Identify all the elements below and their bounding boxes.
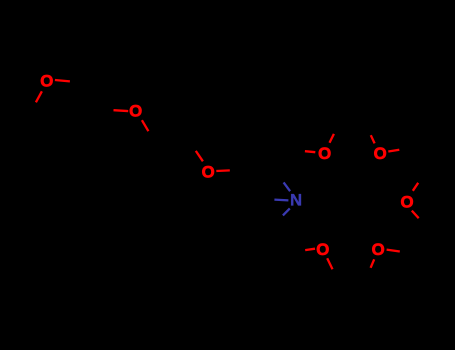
- bond stub O8-C (down-left half bond): [371, 259, 375, 268]
- svg-text:O: O: [374, 144, 387, 163]
- bond stub O1-C (right half bond): [55, 80, 70, 81]
- svg-text:O: O: [318, 144, 331, 163]
- svg-text:O: O: [40, 71, 53, 90]
- bond stub O3-C (right half bond): [216, 169, 230, 172]
- bond stub O7-C (left half bond): [305, 249, 315, 250]
- bond stub O3-C (up-left half bond): [196, 151, 203, 161]
- bond stub O6-C (up-right half bond): [413, 183, 418, 191]
- svg-text:O: O: [129, 102, 142, 121]
- svg-text:O: O: [400, 192, 413, 211]
- bond stub O4-C (up-right half bond): [330, 134, 334, 143]
- svg-text:O: O: [372, 240, 385, 259]
- bond stub O1-CH3 (down-left half bond): [36, 91, 42, 102]
- bond stub N1-C (left half bond): [274, 198, 288, 201]
- bond stub O4-C (left half bond): [305, 151, 315, 152]
- bond stub O2-C (left half bond): [114, 109, 129, 112]
- svg-text:O: O: [202, 163, 215, 182]
- bond stub O5-C (up-left half bond): [371, 135, 375, 143]
- bond stub O7-C (down-right half bond): [327, 258, 332, 269]
- bond stub O6-C (down-right half bond): [412, 211, 419, 219]
- bond stub O5-C (right half bond): [388, 150, 399, 152]
- svg-text:N: N: [290, 191, 302, 210]
- svg-text:O: O: [316, 240, 329, 259]
- bond stub N1-C (down-left half bond): [283, 208, 290, 215]
- bond stub N1-C (up-left half bond): [284, 182, 291, 191]
- bond stub O8-C (right half bond): [387, 250, 400, 252]
- bond stub O2-C (down-right half bond): [142, 120, 149, 131]
